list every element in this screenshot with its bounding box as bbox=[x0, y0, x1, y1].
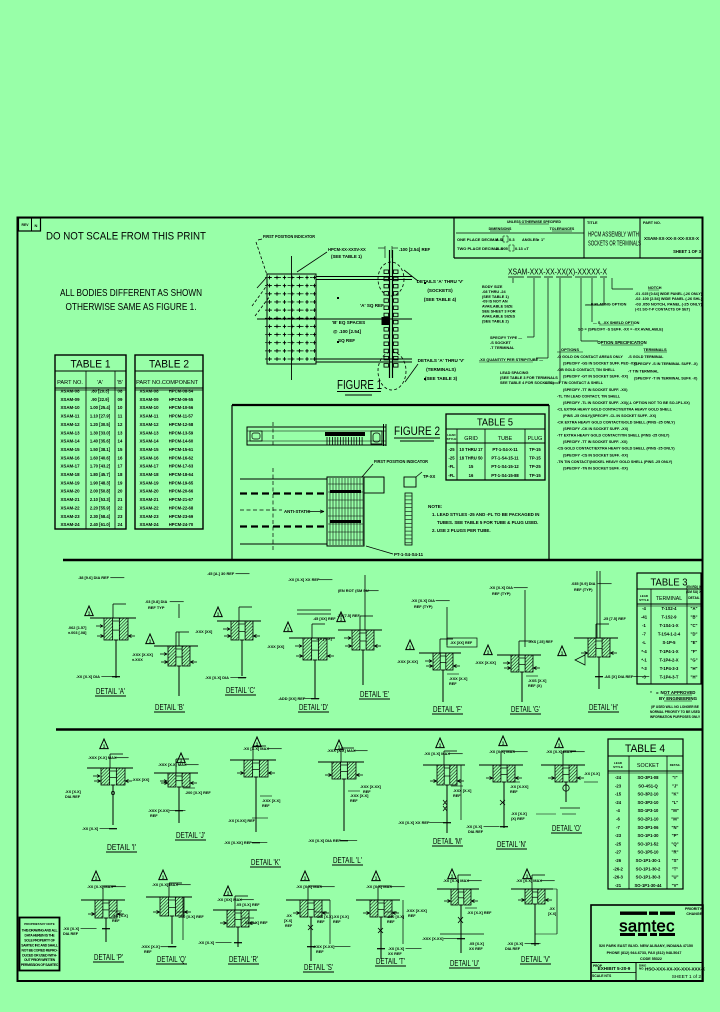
svg-text:.XXX [X.XX]: .XXX [X.XX] bbox=[475, 661, 497, 665]
svg-text:-21: -21 bbox=[615, 883, 622, 888]
svg-text:.XX [X.X]: .XX [X.X] bbox=[316, 637, 333, 641]
svg-text:HPCM-15-61: HPCM-15-61 bbox=[169, 447, 194, 452]
svg-text:-CK EXTRA HEAVY GOLD CONTACT/: -CK EXTRA HEAVY GOLD CONTACT/GOLD SHELL … bbox=[557, 421, 676, 425]
svg-text:1: 1 bbox=[502, 741, 505, 746]
svg-text:COMPONENT: COMPONENT bbox=[162, 380, 199, 386]
svg-text:20: 20 bbox=[118, 489, 123, 494]
svg-text:FIGURE 1: FIGURE 1 bbox=[337, 378, 382, 392]
svg-text:"Q": "Q" bbox=[671, 841, 678, 846]
svg-text:XSAM-XXX-XX-XX(X)-XXXXX-X: XSAM-XXX-XX-XX(X)-XXXXX-X bbox=[508, 267, 607, 277]
svg-text:HPCM-16-62: HPCM-16-62 bbox=[169, 455, 194, 460]
svg-text:.XXX [X.XX]: .XXX [X.XX] bbox=[148, 808, 170, 813]
svg-text:-4: -4 bbox=[616, 808, 620, 813]
svg-text:REF: REF bbox=[317, 920, 325, 924]
svg-text:XSAM-09: XSAM-09 bbox=[60, 397, 80, 402]
svg-text:1.90 [48.3]: 1.90 [48.3] bbox=[90, 480, 111, 485]
svg-text:[X.X]: [X.X] bbox=[548, 912, 556, 916]
svg-text:XSAM-21: XSAM-21 bbox=[60, 497, 80, 502]
svg-text:DETAIL 'N': DETAIL 'N' bbox=[497, 839, 526, 849]
svg-text:.XXX [X.X]: .XXX [X.X] bbox=[141, 944, 161, 949]
svg-text:14: 14 bbox=[118, 439, 123, 444]
svg-text:-01 .025 [0.64] WIDE PANEL (-: -01 .025 [0.64] WIDE PANEL (-26 ONLY) bbox=[635, 292, 703, 296]
svg-text:.XX [X.X]: .XX [X.X] bbox=[65, 790, 82, 794]
svg-text:HPCM-22-68: HPCM-22-68 bbox=[169, 505, 194, 510]
svg-text:-26-2: -26-2 bbox=[613, 866, 623, 871]
svg-text:1: 1 bbox=[149, 639, 152, 644]
svg-text:XSAM-17: XSAM-17 bbox=[60, 464, 80, 469]
svg-text:TP-25: TP-25 bbox=[529, 464, 541, 469]
svg-text:DETAIL 'L': DETAIL 'L' bbox=[333, 855, 362, 865]
svg-text:08: 08 bbox=[118, 389, 123, 394]
svg-text:.XX [X.X]: .XX [X.X] bbox=[507, 941, 524, 946]
svg-text:.XXX [X.XX]: .XXX [X.XX] bbox=[397, 660, 419, 664]
svg-text:(SEE TABLE 1): (SEE TABLE 1) bbox=[482, 295, 509, 299]
svg-text:FIRST POSITION INDICATOR: FIRST POSITION INDICATOR bbox=[374, 459, 429, 464]
svg-text:REF (X): REF (X) bbox=[528, 684, 542, 688]
svg-text:13: 13 bbox=[118, 430, 123, 435]
svg-text:-S GOLD TERMINAL: -S GOLD TERMINAL bbox=[628, 355, 664, 359]
svg-text:PART NO.: PART NO. bbox=[136, 380, 162, 386]
svg-text:(EN ROT (SM SU: (EN ROT (SM SU bbox=[338, 588, 369, 593]
svg-text:T-1S2-9: T-1S2-9 bbox=[662, 615, 678, 620]
svg-text:"K": "K" bbox=[672, 792, 679, 797]
svg-text:.XX [X.X] MAX: .XX [X.X] MAX bbox=[424, 751, 450, 756]
svg-text:XSAM-08: XSAM-08 bbox=[139, 389, 159, 394]
svg-text:OUT PRIOR WRITTEN: OUT PRIOR WRITTEN bbox=[24, 958, 56, 962]
svg-text:1: 1 bbox=[561, 651, 564, 656]
svg-text:DIA REF: DIA REF bbox=[63, 932, 79, 936]
svg-text:TUBES. SEE TABLE 5 FOR TUBE &: TUBES. SEE TABLE 5 FOR TUBE & PLUG USED. bbox=[437, 520, 538, 525]
svg-text:-15: -15 bbox=[615, 792, 622, 797]
svg-text:DATA HEREIN IS THE: DATA HEREIN IS THE bbox=[25, 933, 56, 937]
svg-text:.XX [X.X]: .XX [X.X] bbox=[317, 915, 334, 919]
svg-text:(SPECIFY -GT IN SOCKET SUFF. -: (SPECIFY -GT IN SOCKET SUFF. -XX) bbox=[563, 375, 629, 379]
svg-text:.XXX [X.X]: .XXX [X.X] bbox=[262, 799, 281, 803]
svg-text:.05 [X.X] REF: .05 [X.X] REF bbox=[244, 921, 268, 925]
svg-text:HPCM-14-60: HPCM-14-60 bbox=[169, 439, 194, 444]
svg-text:"L": "L" bbox=[672, 800, 679, 805]
svg-text:-25: -25 bbox=[615, 841, 622, 846]
svg-text:.03 [0.8] DIA: .03 [0.8] DIA bbox=[145, 599, 167, 604]
svg-text:=T: =T bbox=[524, 246, 529, 251]
svg-text:AVAILABLE SIZES: AVAILABLE SIZES bbox=[482, 314, 516, 318]
svg-text:2.40 [61.0]: 2.40 [61.0] bbox=[90, 522, 111, 527]
svg-text:2.10 [53.3]: 2.10 [53.3] bbox=[90, 497, 111, 502]
svg-text:18 THRU 50: 18 THRU 50 bbox=[459, 456, 483, 461]
svg-text:-23: -23 bbox=[615, 833, 622, 838]
svg-text:"A": "A" bbox=[691, 606, 698, 611]
svg-text:.05 [X.X]: .05 [X.X] bbox=[469, 942, 485, 946]
svg-text:HPCM ASSEMBLY WITH: HPCM ASSEMBLY WITH bbox=[588, 230, 639, 239]
svg-text:@ .100 [2.54]: @ .100 [2.54] bbox=[333, 329, 361, 334]
svg-text:.XX [X.XX] REF: .XX [X.XX] REF bbox=[228, 819, 256, 823]
svg-text:TOLERANCES: TOLERANCES bbox=[550, 227, 575, 231]
svg-text:DETAIL 'T': DETAIL 'T' bbox=[376, 956, 405, 966]
svg-text:.XX [X.X] XX REF: .XX [X.X] XX REF bbox=[288, 577, 320, 582]
svg-text:(-01 SO-T-P CONTACTS OF SET): (-01 SO-T-P CONTACTS OF SET) bbox=[635, 308, 691, 312]
svg-text:DETAIL 'V': DETAIL 'V' bbox=[521, 954, 550, 964]
svg-text:(SPECIFY -CS IN SOCKET SUFF. -: (SPECIFY -CS IN SOCKET SUFF. -XX) bbox=[563, 453, 629, 457]
svg-text:.XX [X.X]: .XX [X.X] bbox=[63, 926, 80, 931]
svg-text:'B' EQ SPACES: 'B' EQ SPACES bbox=[332, 320, 365, 325]
svg-text:(SPECIFY -CK IN SOCKET SUFF. -: (SPECIFY -CK IN SOCKET SUFF. -XX) bbox=[563, 427, 629, 431]
svg-text:SO-1P5-10: SO-1P5-10 bbox=[638, 850, 660, 855]
svg-text:SQ REF: SQ REF bbox=[338, 338, 355, 343]
svg-text:XSAM-22: XSAM-22 bbox=[139, 505, 159, 510]
svg-text:1. LEAD STYLES -25 AND -FL TO: 1. LEAD STYLES -25 AND -FL TO BE PACKAGE… bbox=[432, 512, 539, 517]
svg-text:REF: REF bbox=[510, 790, 518, 794]
svg-text:2.20 [55.9]: 2.20 [55.9] bbox=[90, 505, 111, 510]
svg-text:0.3: 0.3 bbox=[509, 237, 515, 242]
svg-text:REF (TYP): REF (TYP) bbox=[414, 605, 433, 609]
svg-text:(SM SU) XX: (SM SU) XX bbox=[686, 590, 704, 594]
svg-text:HPCM-21-67: HPCM-21-67 bbox=[169, 497, 194, 502]
svg-text:1.00 [25.4]: 1.00 [25.4] bbox=[90, 405, 111, 410]
svg-text:TERMINALS: TERMINALS bbox=[643, 347, 667, 352]
svg-text:NOT APPROVED: NOT APPROVED bbox=[661, 690, 696, 695]
svg-text:-T TIN TERMINAL: -T TIN TERMINAL bbox=[628, 369, 659, 373]
svg-text:DETAIL 'S': DETAIL 'S' bbox=[304, 962, 333, 972]
svg-text:19: 19 bbox=[118, 480, 123, 485]
svg-text:16: 16 bbox=[118, 455, 123, 460]
svg-text:PLUG: PLUG bbox=[528, 436, 543, 442]
svg-text:SO-1P1-30-2: SO-1P1-30-2 bbox=[636, 866, 661, 871]
svg-text:SPECIFY TYPE —: SPECIFY TYPE — bbox=[490, 336, 522, 340]
svg-text:.XXX [X.XX]: .XXX [X.XX] bbox=[132, 653, 154, 657]
svg-text:OTHERWISE SAME AS FIGURE 1.: OTHERWISE SAME AS FIGURE 1. bbox=[66, 302, 197, 313]
svg-text:1.20 [30.5]: 1.20 [30.5] bbox=[90, 422, 111, 427]
svg-text:HPCM-08-54: HPCM-08-54 bbox=[169, 389, 194, 394]
svg-text:"I": "I" bbox=[672, 775, 677, 780]
svg-text:.XXS [.25] REF: .XXS [.25] REF bbox=[528, 640, 554, 644]
svg-text:.XX: .XX bbox=[549, 907, 555, 911]
svg-text:.XX [X.X]: .XX [X.X] bbox=[198, 940, 215, 945]
svg-text:HPCM-20-66: HPCM-20-66 bbox=[169, 489, 194, 494]
svg-text:1.30 [33.0]: 1.30 [33.0] bbox=[90, 430, 111, 435]
svg-text:XSAM-16: XSAM-16 bbox=[139, 455, 159, 460]
svg-text:XSAM-10: XSAM-10 bbox=[139, 405, 159, 410]
svg-text:-TT EXTRA HEAVY GOLD CONTACT/: -TT EXTRA HEAVY GOLD CONTACT/TIN SHELL (… bbox=[557, 434, 670, 438]
svg-text:HPCM-23-69: HPCM-23-69 bbox=[169, 514, 194, 519]
svg-text:"J": "J" bbox=[672, 783, 678, 788]
svg-text:.200 [X.X] REF: .200 [X.X] REF bbox=[178, 915, 204, 919]
svg-text:1: 1 bbox=[287, 627, 290, 632]
svg-text:18: 18 bbox=[118, 472, 123, 477]
svg-text:.XX [X.X] MAX: .XX [X.X] MAX bbox=[443, 878, 469, 883]
svg-text:(TERMINALS): (TERMINALS) bbox=[426, 367, 456, 372]
svg-text:.XX [X.XX] REF: .XX [X.XX] REF bbox=[224, 840, 252, 845]
svg-text:AVAILABLE SIZE: AVAILABLE SIZE bbox=[482, 305, 513, 309]
svg-text:DETAIL 'J': DETAIL 'J' bbox=[176, 830, 205, 840]
svg-text:-4: -4 bbox=[642, 606, 646, 611]
svg-text:.XX [X.X] MAX: .XX [X.X] MAX bbox=[87, 884, 113, 889]
svg-text:0.13: 0.13 bbox=[515, 246, 524, 251]
svg-text:.XXX [X.X] MAX: .XXX [X.X] MAX bbox=[88, 755, 117, 760]
svg-text:.XX: .XX bbox=[286, 914, 292, 918]
svg-text:TABLE 4: TABLE 4 bbox=[625, 743, 665, 755]
svg-text:.XXX [X.X]: .XXX [X.X] bbox=[453, 789, 472, 793]
svg-text:1: 1 bbox=[304, 876, 307, 881]
svg-text:"C": "C" bbox=[691, 623, 698, 628]
svg-text:T-1S4-1-2-4: T-1S4-1-2-4 bbox=[658, 632, 681, 637]
svg-text:STYLE: STYLE bbox=[447, 437, 457, 441]
svg-text:FIGURE 2: FIGURE 2 bbox=[394, 424, 440, 438]
svg-text:XSAM-16: XSAM-16 bbox=[60, 455, 80, 460]
svg-text:XSAM-10: XSAM-10 bbox=[60, 405, 80, 410]
svg-text:"E": "E" bbox=[691, 640, 698, 645]
svg-text:REF TYP: REF TYP bbox=[148, 605, 165, 610]
svg-text:TP-XX: TP-XX bbox=[423, 474, 436, 479]
svg-text:XSAM-13: XSAM-13 bbox=[139, 430, 159, 435]
svg-text:15: 15 bbox=[469, 464, 474, 469]
svg-text:.100 [2.54] REF: .100 [2.54] REF bbox=[399, 247, 431, 252]
svg-text:DETAILS 'A' THRU 'V': DETAILS 'A' THRU 'V' bbox=[417, 279, 464, 284]
svg-text:-G GOLD ON CONTACT AREAS ONLY: -G GOLD ON CONTACT AREAS ONLY bbox=[557, 355, 623, 359]
svg-text:"B": "B" bbox=[691, 615, 698, 620]
svg-text:-TN TIN CONTACT/(NICKEL HEAVY: -TN TIN CONTACT/(NICKEL HEAVY GOLD SHELL… bbox=[557, 460, 673, 464]
svg-text:-CS GOLD CONTACT/EXTRA HEAVY: -CS GOLD CONTACT/EXTRA HEAVY GOLD SHELL … bbox=[557, 447, 675, 451]
svg-text:.80 [20.3]: .80 [20.3] bbox=[91, 389, 110, 394]
svg-text:.XX [X.X]: .XX [X.X] bbox=[112, 914, 129, 918]
svg-text:SO-1P1-30-1: SO-1P1-30-1 bbox=[636, 858, 661, 863]
svg-text:INFORMATION PURPOSES ONLY: INFORMATION PURPOSES ONLY bbox=[650, 715, 701, 719]
svg-text:-T TERMINAL: -T TERMINAL bbox=[490, 346, 515, 350]
svg-text:REF: REF bbox=[408, 914, 416, 918]
svg-text:1.80 [45.7]: 1.80 [45.7] bbox=[90, 472, 111, 477]
svg-text:N: N bbox=[35, 223, 38, 228]
svg-text:"T": "T" bbox=[672, 866, 679, 871]
svg-text:.XXX [XX]: .XXX [XX] bbox=[132, 778, 150, 782]
svg-text:REF (TYP): REF (TYP) bbox=[492, 592, 511, 596]
svg-text:1.70 [43.2]: 1.70 [43.2] bbox=[90, 464, 111, 469]
svg-text:NOT BE COPIED REPRO-: NOT BE COPIED REPRO- bbox=[22, 948, 58, 952]
svg-text:-CL EXTRA HEAVY GOLD CONTACT/: -CL EXTRA HEAVY GOLD CONTACT/EXTRA HEAVY… bbox=[557, 407, 673, 411]
svg-text:-08 THRU -24: -08 THRU -24 bbox=[482, 290, 507, 294]
svg-text:-02 .100 [2.54] WIDE PANEL (-: -02 .100 [2.54] WIDE PANEL (-26 SHL) bbox=[635, 297, 703, 301]
svg-text:-S SOCKET: -S SOCKET bbox=[490, 341, 511, 345]
svg-text:-XX QUANTITY PER STRIP/TUBE —: -XX QUANTITY PER STRIP/TUBE — bbox=[479, 358, 543, 362]
svg-text:16: 16 bbox=[469, 473, 474, 478]
svg-text:T-1S2-4: T-1S2-4 bbox=[662, 606, 678, 611]
svg-text:REF: REF bbox=[150, 814, 158, 818]
svg-text:(IF USED WILL NO LONGER BE: (IF USED WILL NO LONGER BE bbox=[651, 705, 699, 709]
svg-text:1: 1 bbox=[162, 875, 165, 880]
svg-text:-26-3: -26-3 bbox=[613, 875, 623, 880]
svg-text:SO-1P1-30-3: SO-1P1-30-3 bbox=[636, 875, 661, 880]
svg-text:REF: REF bbox=[387, 920, 395, 924]
svg-text:.XXX [X.X]: .XXX [X.X] bbox=[350, 794, 369, 798]
svg-text:.ADD [XX] REF: .ADD [XX] REF bbox=[278, 696, 306, 701]
svg-text:SHEET 1 of 2: SHEET 1 of 2 bbox=[672, 974, 702, 980]
svg-text:(SPECIFY -S IN TERMINAL SUFF.: (SPECIFY -S IN TERMINAL SUFF. -X) bbox=[634, 362, 698, 366]
svg-text:SAMTEC INC AND SHALL: SAMTEC INC AND SHALL bbox=[21, 943, 58, 947]
svg-text:.XXX [XX]: .XXX [XX] bbox=[195, 630, 213, 634]
svg-text:-FL: -FL bbox=[448, 473, 455, 478]
svg-text:SO-4S1-Q: SO-4S1-Q bbox=[638, 783, 658, 788]
svg-text:DIMENSIONS: DIMENSIONS bbox=[489, 227, 512, 231]
svg-text:THIS DRAWING AND ALL: THIS DRAWING AND ALL bbox=[22, 929, 58, 933]
svg-text:"G": "G" bbox=[690, 657, 697, 662]
svg-text:2. USE 2 PLUGS PER TUBE.: 2. USE 2 PLUGS PER TUBE. bbox=[432, 528, 491, 533]
svg-text:.XX [X.X] DIA: .XX [X.X] DIA bbox=[205, 675, 229, 680]
svg-text:SOCKETS OR TERMINALS: SOCKETS OR TERMINALS bbox=[588, 239, 641, 248]
svg-text:XSAM-20: XSAM-20 bbox=[139, 489, 159, 494]
svg-text:DETAIL 'I': DETAIL 'I' bbox=[107, 842, 136, 852]
svg-text:HPCM-17-63: HPCM-17-63 bbox=[169, 464, 194, 469]
svg-text:XSAM-18: XSAM-18 bbox=[60, 472, 80, 477]
svg-text:XSAM-22: XSAM-22 bbox=[60, 505, 80, 510]
svg-text:.XX [X.X] MAX: .XX [X.X] MAX bbox=[296, 884, 322, 889]
svg-text:2.00 [50.8]: 2.00 [50.8] bbox=[90, 489, 111, 494]
svg-text:DETAILS 'A' THRU 'V': DETAILS 'A' THRU 'V' bbox=[418, 358, 465, 363]
svg-text:.XXX [X.X] MAX: .XXX [X.X] MAX bbox=[158, 762, 187, 767]
svg-text:XSAM-19: XSAM-19 bbox=[139, 480, 159, 485]
svg-text:-L: -L bbox=[642, 640, 646, 645]
svg-text:1: 1 bbox=[88, 611, 91, 616]
svg-text:.062 [1.57]: .062 [1.57] bbox=[68, 626, 87, 630]
svg-text:-TL TIN LEAD CONTACT, TIN SHE: -TL TIN LEAD CONTACT, TIN SHELL bbox=[557, 394, 621, 398]
svg-text:10: 10 bbox=[118, 405, 123, 410]
svg-text:DETAIL 'H': DETAIL 'H' bbox=[589, 702, 618, 712]
svg-text:"U": "U" bbox=[672, 875, 679, 880]
svg-text:1: 1 bbox=[558, 743, 561, 748]
svg-text:XSAM-15: XSAM-15 bbox=[139, 447, 159, 452]
svg-text:samtec: samtec bbox=[619, 918, 675, 936]
svg-text:EXHIBIT 5-20-9: EXHIBIT 5-20-9 bbox=[598, 966, 631, 971]
svg-text:.XX [XX] MAX: .XX [XX] MAX bbox=[217, 897, 242, 902]
svg-text:HPCM-19-65: HPCM-19-65 bbox=[169, 480, 194, 485]
svg-text:SO-1P1-30-44: SO-1P1-30-44 bbox=[635, 883, 663, 888]
svg-text:(SPECIFY -TN IN SOCKET SUFF. -: (SPECIFY -TN IN SOCKET SUFF. -XX) bbox=[563, 466, 629, 470]
svg-text:.XX [X.X] DIA: .XX [X.X] DIA bbox=[489, 585, 513, 590]
svg-text:2.30 [58.4]: 2.30 [58.4] bbox=[90, 514, 111, 519]
svg-text:DIA REF: DIA REF bbox=[65, 795, 81, 799]
svg-text:.XXX [X.XX]: .XXX [X.XX] bbox=[360, 785, 382, 789]
svg-text:1: 1 bbox=[217, 612, 220, 617]
svg-text:LEAD SPACING: LEAD SPACING bbox=[500, 371, 528, 375]
svg-text:(SOCKETS): (SOCKETS) bbox=[427, 288, 453, 293]
svg-text:.XX [X.X] MAX: .XX [X.X] MAX bbox=[546, 749, 572, 754]
svg-text:SHEET 1 OF 3: SHEET 1 OF 3 bbox=[673, 249, 702, 254]
svg-text:(SEE TABLE 3): (SEE TABLE 3) bbox=[425, 376, 458, 381]
svg-text:1.50 [38.1]: 1.50 [38.1] bbox=[90, 447, 111, 452]
svg-text:SO-2P1-10: SO-2P1-10 bbox=[638, 817, 660, 822]
svg-text:XSAM-14: XSAM-14 bbox=[60, 439, 80, 444]
svg-text:STYLE: STYLE bbox=[613, 765, 623, 769]
svg-text:12: 12 bbox=[118, 422, 123, 427]
svg-text:NOTE:: NOTE: bbox=[428, 504, 443, 509]
svg-text:(SEE TABLE 3 FOR TERMINALS: (SEE TABLE 3 FOR TERMINALS bbox=[500, 376, 558, 380]
svg-text:"S": "S" bbox=[672, 858, 679, 863]
svg-text:"R": "R" bbox=[672, 850, 679, 855]
svg-text:.XX [X.X] DIA: .XX [X.X] DIA bbox=[76, 674, 100, 679]
svg-text:1.60 [40.6]: 1.60 [40.6] bbox=[90, 455, 111, 460]
svg-text:.90 [22.9]: .90 [22.9] bbox=[91, 397, 110, 402]
svg-text:SO-3P2-10: SO-3P2-10 bbox=[638, 800, 660, 805]
svg-text:REF: REF bbox=[363, 790, 371, 794]
svg-text:XSAM-09: XSAM-09 bbox=[139, 397, 159, 402]
svg-text:1.10 [27.9]: 1.10 [27.9] bbox=[90, 414, 111, 419]
svg-text:1: 1 bbox=[95, 876, 98, 881]
svg-text:SO-1P1-52: SO-1P1-52 bbox=[638, 841, 660, 846]
svg-text:[X.X]: [X.X] bbox=[284, 919, 292, 923]
svg-text:'B': 'B' bbox=[117, 380, 123, 386]
svg-text:T-1P4-3-T: T-1P4-3-T bbox=[660, 674, 679, 679]
svg-text:-09 IS NOT AN: -09 IS NOT AN bbox=[482, 300, 508, 304]
svg-text:.XX [X.X] MAX: .XX [X.X] MAX bbox=[366, 884, 392, 889]
svg-text:.45 [XX] REF: .45 [XX] REF bbox=[313, 617, 336, 621]
svg-text:DETAIL 'B': DETAIL 'B' bbox=[155, 702, 184, 712]
svg-text:PHONE (812) 944-6733, FAX (812: PHONE (812) 944-6733, FAX (812) 948-5047 bbox=[607, 951, 682, 955]
svg-text:(SEE TABLE 2): (SEE TABLE 2) bbox=[482, 319, 509, 323]
svg-text:-03 .050 NOTCH, PANEL (-25 ON: -03 .050 NOTCH, PANEL (-25 ONLY) bbox=[635, 302, 703, 306]
svg-text:DETAIL 'U': DETAIL 'U' bbox=[450, 958, 479, 968]
svg-text:24: 24 bbox=[118, 522, 123, 527]
svg-text:-7: -7 bbox=[616, 825, 620, 830]
svg-text:PT-1-S4-X-11: PT-1-S4-X-11 bbox=[492, 447, 518, 452]
svg-text:PROPRIETARY NOTE: PROPRIETARY NOTE bbox=[24, 922, 54, 926]
svg-text:.45 [A.] 30 REF: .45 [A.] 30 REF bbox=[207, 571, 235, 576]
svg-text:PT-1-S4-S4-11: PT-1-S4-S4-11 bbox=[394, 552, 424, 557]
svg-text:'A': 'A' bbox=[97, 380, 103, 386]
svg-text:REF: REF bbox=[449, 682, 457, 686]
svg-text:.XX [X.X]: .XX [X.X] bbox=[82, 826, 99, 831]
svg-text:(SPECIFY -TT IN SOCKET SUFF. -: (SPECIFY -TT IN SOCKET SUFF. -XX) bbox=[563, 388, 628, 392]
svg-text:REF: REF bbox=[350, 799, 358, 803]
svg-text:TABLE 2: TABLE 2 bbox=[149, 359, 189, 371]
svg-text:.XXS [X.X]: .XXS [X.X] bbox=[528, 679, 547, 683]
svg-text:.XX [X.X]: .XX [X.X] bbox=[511, 812, 528, 816]
svg-text:.XXX [XX]: .XXX [XX] bbox=[267, 645, 285, 649]
svg-text:ANGLES: ANGLES bbox=[522, 238, 538, 242]
svg-text:SEE TABLE 4 FOR SOCKETS): SEE TABLE 4 FOR SOCKETS) bbox=[500, 381, 555, 385]
svg-text:FIRST POSITION INDICATOR: FIRST POSITION INDICATOR bbox=[263, 234, 316, 239]
svg-text:(PINS -25 ONLY)(SPECIFY -CL IN: (PINS -25 ONLY)(SPECIFY -CL IN SOCKET SU… bbox=[563, 414, 657, 418]
svg-text:REF: REF bbox=[112, 919, 120, 923]
svg-text:PART NO.: PART NO. bbox=[643, 221, 661, 225]
svg-text:GRID: GRID bbox=[464, 436, 478, 442]
svg-text:DETAIL 'R': DETAIL 'R' bbox=[229, 954, 258, 964]
svg-text:ALL BODIES DIFFERENT AS SHOWN: ALL BODIES DIFFERENT AS SHOWN bbox=[60, 288, 202, 299]
svg-text:DETAIL 'P': DETAIL 'P' bbox=[94, 952, 123, 962]
svg-text:.XX [X.X] MAX: .XX [X.X] MAX bbox=[243, 746, 269, 751]
svg-text:-26: -26 bbox=[615, 858, 622, 863]
svg-text:SO-3P1-06: SO-3P1-06 bbox=[638, 825, 660, 830]
svg-text:15: 15 bbox=[118, 447, 123, 452]
svg-text:REF: REF bbox=[453, 794, 461, 798]
svg-text:XSAM-11: XSAM-11 bbox=[61, 414, 80, 419]
svg-text:-41: -41 bbox=[641, 615, 648, 620]
svg-text:TABLE 1: TABLE 1 bbox=[71, 359, 111, 371]
svg-text:XSAM-18: XSAM-18 bbox=[139, 472, 159, 477]
svg-text:DETAIL 'K': DETAIL 'K' bbox=[251, 857, 280, 867]
svg-text:PT-1-S4-15-11: PT-1-S4-15-11 bbox=[491, 456, 519, 461]
svg-text:XSAM-15: XSAM-15 bbox=[60, 447, 80, 452]
svg-text:.XXX [X.XX]: .XXX [X.XX] bbox=[313, 944, 335, 949]
svg-text:.XXX [X.X] MAX: .XXX [X.X] MAX bbox=[327, 748, 356, 753]
svg-text:REF: REF bbox=[144, 950, 152, 954]
svg-text:PT-1-S4-15-12: PT-1-S4-15-12 bbox=[491, 464, 519, 469]
svg-text:.XX [X.X]: .XX [X.X] bbox=[466, 824, 483, 829]
svg-text:.38 [9.6] DIA REF: .38 [9.6] DIA REF bbox=[78, 575, 110, 580]
svg-text:-25: -25 bbox=[448, 456, 455, 461]
svg-text:-GB GOLD CONTACT, TIN SHELL: -GB GOLD CONTACT, TIN SHELL bbox=[557, 368, 616, 372]
svg-text:XSAM-12: XSAM-12 bbox=[139, 422, 159, 427]
svg-text:.XX [X.X]: .XX [X.X] bbox=[388, 946, 405, 951]
svg-text:*-3: *-3 bbox=[641, 666, 647, 671]
svg-text:PERMISSION OF SAMTEC: PERMISSION OF SAMTEC bbox=[21, 963, 59, 967]
svg-text:ANTI-STATIC: ANTI-STATIC bbox=[284, 509, 310, 514]
